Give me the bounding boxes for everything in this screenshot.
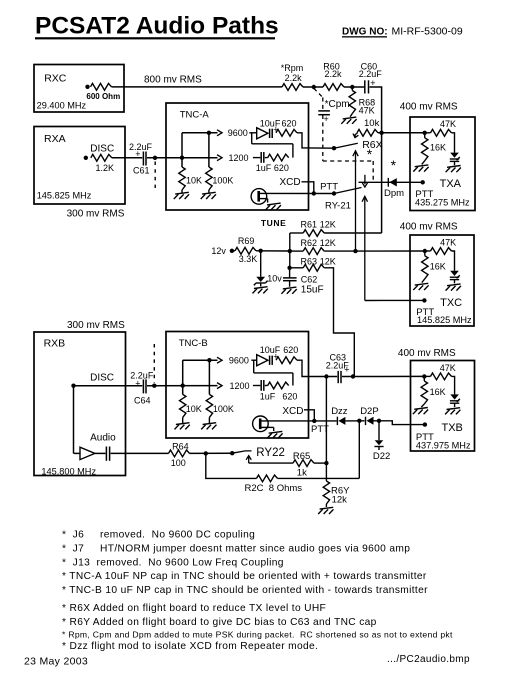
RXC labels — [37, 73, 121, 111]
resistor R6Y 12k — [323, 481, 329, 504]
resistor 620 TNC-B 1200 — [268, 382, 289, 389]
svg-text:9600: 9600 — [228, 128, 248, 138]
drawing number label — [342, 26, 463, 38]
svg-text:47K: 47K — [440, 238, 456, 248]
svg-text:100K: 100K — [212, 176, 233, 186]
svg-text:1uF: 1uF — [256, 163, 272, 173]
svg-text:9600: 9600 — [229, 356, 249, 366]
wire D2P to TXB PTT jog — [374, 421, 425, 425]
svg-text:620: 620 — [274, 163, 289, 173]
wire link down to 1200 chain B — [292, 373, 294, 386]
svg-text:12K: 12K — [320, 257, 336, 267]
svg-text:RY-21: RY-21 — [325, 201, 351, 212]
R68 labels — [359, 97, 376, 115]
R69 labels — [238, 236, 257, 264]
wire TNC-B vertical riser — [182, 360, 184, 394]
resistor R63 12K — [303, 264, 324, 271]
receiver box RXC — [34, 65, 124, 113]
svg-text:C64: C64 — [134, 396, 151, 406]
svg-text:XCD: XCD — [282, 406, 303, 417]
resistor R2C 8 Ohms — [257, 475, 278, 482]
wire 100K to ground — [208, 190, 210, 193]
svg-text:Audio: Audio — [90, 433, 116, 444]
RXB labels — [41, 320, 125, 477]
wire 10k to TXA input — [378, 132, 425, 134]
svg-text:23 May 2003: 23 May 2003 — [24, 656, 88, 668]
node TNC-A 1200 tap — [180, 156, 184, 160]
resistor 100K TNC-B — [206, 394, 212, 417]
wire R69 to bus — [256, 250, 290, 252]
R63 labels — [301, 257, 336, 267]
svg-text:2.2uF: 2.2uF — [129, 142, 153, 152]
node TNC-B 9600 tap — [207, 358, 211, 362]
wire 12v to R69 — [232, 250, 235, 252]
switch blade RY-21 — [334, 188, 362, 194]
wire 800mv bus — [112, 86, 283, 88]
wire R68 to ground — [350, 114, 352, 117]
wire R62 to TXC input — [324, 250, 425, 252]
svg-text:D22: D22 — [373, 451, 390, 462]
arrow 9600 input — [217, 130, 222, 136]
wire C63 bias vertical — [325, 377, 327, 481]
node RXA DISC — [84, 156, 88, 160]
svg-text:+: + — [344, 365, 349, 375]
svg-text:* J7 HT/NORM jumper doesn: * J7 HT/NORM jumper doesnt matter since … — [62, 543, 410, 554]
transmitter box TXB — [411, 361, 475, 452]
svg-text:TXA: TXA — [440, 178, 462, 190]
svg-text:145.825 MHz: 145.825 MHz — [37, 191, 92, 201]
ground 16K TXC — [413, 283, 428, 290]
node bus R62 — [288, 249, 292, 253]
svg-text:620: 620 — [282, 392, 297, 402]
R62 labels — [301, 238, 336, 248]
capacitor 1uF TNC-A — [261, 152, 264, 163]
svg-text:* Dzz flight mod to isolate XC: * Dzz flight mod to isolate XCD from Rep… — [62, 641, 318, 652]
node C63 right R63 join — [351, 374, 355, 378]
node Rpm/R60 junction — [312, 85, 316, 89]
wire 100K riser B — [208, 360, 210, 394]
resistor 16K TXB — [421, 381, 427, 404]
svg-text:* J13 removed. No 9600 Low: * J13 removed. No 9600 Low Freq Coupling — [62, 557, 284, 568]
svg-text:10K: 10K — [186, 176, 202, 186]
op-amp U-A 9600 amp — [257, 128, 268, 139]
wire 47K to varactor TXB — [452, 376, 455, 394]
svg-text:437.975 MHz: 437.975 MHz — [416, 441, 471, 451]
wire audio out to R64 — [111, 452, 169, 454]
arrow 1200 input B — [217, 383, 222, 389]
svg-text:TUNE: TUNE — [261, 218, 287, 228]
node TXB PTT — [423, 422, 427, 426]
resistor 10K TNC-B — [180, 394, 186, 417]
arrow R62 tune to R6X — [353, 151, 358, 251]
svg-text:400 mv RMS: 400 mv RMS — [400, 222, 458, 233]
svg-text:Dpm: Dpm — [384, 188, 404, 199]
node D22 tap — [377, 419, 381, 423]
wire 16K to ground — [422, 161, 425, 165]
svg-text:R63: R63 — [301, 257, 318, 267]
svg-text:2.2k: 2.2k — [325, 69, 343, 79]
svg-text:R65: R65 — [293, 451, 310, 462]
resistor 100K TNC-A — [206, 167, 212, 190]
wire C63 to TXB input — [342, 375, 424, 377]
svg-text:16K: 16K — [430, 262, 446, 272]
arrow RY22 coil — [246, 456, 251, 464]
wire 100K-B to ground — [208, 417, 210, 423]
Rpm labels — [281, 63, 304, 83]
diode Dzz — [337, 417, 345, 425]
resistor 16K TXA — [422, 138, 428, 161]
C62 bottom lead — [289, 281, 291, 287]
svg-text:* R6Y Added on flight board to: * R6Y Added on flight board to give DC b… — [62, 617, 377, 628]
svg-text:12K: 12K — [320, 238, 336, 248]
svg-text:* R6X Added on flight board to: * R6X Added on flight board to reduce TX… — [62, 603, 326, 614]
svg-text:R2C 8 Ohms: R2C 8 Ohms — [245, 483, 303, 494]
node TXA audio input — [423, 131, 427, 135]
svg-text:12v: 12v — [211, 246, 226, 256]
capacitor C61 2.2uF — [143, 152, 146, 166]
svg-text:* Rpm, Cpm and Dpm added to mu: * Rpm, Cpm and Dpm added to mute PSK dur… — [62, 630, 453, 640]
wire R2C to Dzz node drop — [278, 477, 360, 479]
wire TXB input to 47K — [424, 375, 430, 377]
svg-text:*: * — [391, 157, 397, 173]
svg-text:R64: R64 — [172, 442, 189, 452]
svg-text:600 Ohm: 600 Ohm — [86, 92, 120, 101]
title: PCSAT2 Audio Paths — [35, 13, 279, 40]
node zener tap — [259, 249, 263, 253]
op-amp U-B 9600 amp — [257, 355, 268, 366]
transistor Q-B PTT — [253, 416, 274, 432]
svg-text:RXB: RXB — [44, 338, 66, 350]
wire 16K TXC top — [424, 251, 426, 256]
wire RXB internal audio branch — [73, 386, 75, 454]
svg-text:800 mv RMS: 800 mv RMS — [144, 75, 202, 86]
node C60 bus tap — [379, 131, 383, 135]
svg-text:TXC: TXC — [440, 297, 462, 309]
svg-text:* TNC-B 10 uF NP cap in TNC sh: * TNC-B 10 uF NP cap in TNC should be or… — [62, 585, 428, 596]
svg-text:12K: 12K — [320, 220, 336, 230]
svg-text:* J6 removed. No 9600 DC: * J6 removed. No 9600 DC copuling — [62, 530, 255, 541]
svg-text:1.2K: 1.2K — [96, 163, 115, 173]
svg-text:R6X: R6X — [362, 139, 382, 151]
R64 labels — [171, 442, 189, 469]
svg-text:100: 100 — [171, 458, 186, 468]
receiver box RXB — [34, 332, 126, 476]
TNC-B box — [166, 332, 309, 439]
node TXA PTT — [421, 180, 425, 184]
svg-text:47K: 47K — [440, 363, 456, 373]
resistor R68 47K — [349, 91, 355, 114]
svg-text:16K: 16K — [430, 143, 446, 153]
svg-text:10uF: 10uF — [260, 345, 281, 355]
svg-text:400 mv RMS: 400 mv RMS — [398, 348, 456, 359]
wire 9600 to op-amp — [249, 132, 256, 134]
svg-text:RY22: RY22 — [256, 447, 285, 459]
C64 labels — [130, 371, 154, 406]
svg-text:R61: R61 — [301, 220, 318, 230]
resistor 47K TXA — [431, 129, 452, 136]
node XCD-B join — [312, 419, 316, 423]
resistor R64 100 — [169, 450, 190, 457]
svg-text:2.2k: 2.2k — [285, 73, 303, 83]
resistor 1.2K — [91, 154, 112, 161]
svg-text:RXC: RXC — [44, 73, 67, 85]
wire R60 to C60 — [344, 86, 364, 88]
wire C64 to TNC-B — [147, 385, 218, 387]
wire 10K-B to ground — [182, 417, 184, 423]
ground 10K TNC-B — [175, 423, 190, 430]
switch blade R6X — [334, 143, 358, 148]
svg-text:300 mv RMS: 300 mv RMS — [67, 320, 125, 331]
node TXC audio input — [423, 249, 427, 253]
switch blade RY22 — [232, 451, 251, 453]
svg-text:+: + — [135, 379, 140, 389]
resistor 620 TNC-A 1200 — [268, 154, 289, 161]
ground transistor TNC-B — [267, 431, 282, 438]
resistor R60 2.2k — [323, 84, 344, 91]
10uF and 620 labels — [260, 119, 297, 129]
svg-text:XCD: XCD — [280, 177, 301, 188]
capacitor C63 2.2uF — [338, 371, 341, 383]
node bus R63 — [287, 266, 291, 270]
resistor Rpm 2.2k — [282, 84, 303, 91]
R61 labels — [301, 220, 336, 230]
wire TXC PTT feed — [365, 299, 425, 301]
wire TNC-A 9600 input — [182, 132, 218, 134]
1uF and 620 labels — [256, 163, 289, 173]
node TNC-B 1200 tap — [181, 383, 185, 387]
resistor 47K TXC — [431, 248, 452, 255]
ground R6Y — [318, 507, 333, 514]
diode Dpm — [388, 178, 397, 187]
wire 16K TXB top — [423, 376, 425, 381]
ground 10K TNC-A — [174, 192, 189, 199]
ground 16K TXA — [413, 165, 428, 172]
capacitor C62 15uF — [283, 278, 297, 281]
wire C60 out elbow down — [370, 87, 382, 233]
TNC-A box — [166, 103, 309, 210]
wire 47K to varactor — [452, 133, 455, 153]
ground 100K TNC-A — [201, 192, 216, 199]
svg-text:3.3K: 3.3K — [239, 254, 258, 264]
svg-text:* TNC-A 10uF NP cap in TNC sho: * TNC-A 10uF NP cap in TNC should be ori… — [62, 571, 427, 582]
varactor diode TXB — [450, 394, 460, 407]
wire 1200 to 1uF — [253, 157, 260, 159]
resistor R62 12K — [303, 248, 324, 255]
svg-text:+: + — [135, 149, 140, 159]
TXA labels — [400, 102, 470, 208]
wire bus to R61 — [290, 232, 303, 234]
svg-text:*: * — [367, 146, 373, 162]
svg-text:DISC: DISC — [90, 144, 114, 155]
node C63 left — [324, 374, 328, 378]
R65 labels — [293, 451, 310, 479]
ground varactor TXC — [446, 284, 461, 291]
ground transistor TNC-A — [266, 203, 281, 210]
node 12v feed — [230, 249, 234, 253]
node Dzz/D2P junction — [357, 419, 361, 423]
svg-text:400 mv RMS: 400 mv RMS — [400, 102, 458, 113]
R60 labels — [323, 62, 342, 80]
wire Dzz to D2P — [345, 420, 364, 422]
wire link 9600/1200 — [252, 143, 293, 145]
resistor 620 TNC-B 9600 — [276, 357, 297, 364]
ground varactor TXA — [446, 166, 461, 173]
switch arrow at Dpm line — [362, 175, 367, 187]
capacitor C62 15uF lead — [289, 268, 291, 278]
footnotes — [62, 530, 453, 652]
svg-text:10K: 10K — [186, 404, 202, 414]
dashed rail horizontal — [323, 160, 373, 162]
wire R61 to C60 bus — [324, 232, 381, 234]
wire bus to R63 — [290, 267, 304, 269]
receiver box RXA — [34, 127, 125, 205]
wire Rpm to R60 — [303, 86, 323, 88]
resistor R65 1k — [293, 460, 314, 467]
node TXB audio input — [422, 374, 426, 378]
wire C61 to TNC-A — [147, 157, 218, 159]
svg-text:.../PC2audio.bmp: .../PC2audio.bmp — [387, 654, 470, 665]
C62 labels — [301, 275, 324, 296]
RXA labels — [37, 133, 125, 220]
svg-text:*Cpm: *Cpm — [325, 99, 350, 110]
wire RY22 coil to R65 — [249, 462, 293, 464]
capacitor C60 2.2uF — [365, 80, 369, 93]
wire Dzz node down to R2C — [358, 421, 360, 479]
diode D22 — [374, 440, 383, 450]
C61 labels — [129, 142, 153, 176]
svg-text:47K: 47K — [440, 119, 456, 129]
svg-text:47K: 47K — [359, 106, 375, 116]
wire 100K riser — [208, 133, 210, 167]
wire TXC input to 47K — [425, 250, 431, 252]
svg-text:Dzz: Dzz — [331, 406, 348, 417]
wire TNC-A vertical riser to 9600 — [181, 133, 183, 167]
C63 labels — [326, 353, 350, 375]
wire TNC-B out to C63 — [309, 376, 338, 378]
resistor 10k PSK mix — [357, 129, 378, 136]
svg-text:C62: C62 — [301, 275, 318, 285]
dashed Cpm top lead — [322, 98, 324, 111]
svg-text:PCSAT2 Audio Paths: PCSAT2 Audio Paths — [35, 13, 279, 40]
node C61 out — [153, 156, 157, 160]
capacitor 10uF TNC-B — [270, 356, 273, 365]
wire 10K to ground — [181, 190, 183, 193]
jumper J13 dashed stub — [154, 162, 156, 189]
svg-text:R62: R62 — [301, 238, 318, 248]
ground C62 — [281, 287, 296, 294]
svg-text:620: 620 — [283, 345, 298, 355]
node TNC-A 9600 tap — [207, 131, 211, 135]
svg-text:145.825 MHz: 145.825 MHz — [417, 315, 472, 325]
wire 16K top — [424, 133, 426, 138]
wire RXB DISC to C64 — [74, 385, 143, 387]
wire TNC-A 620 out to blade — [309, 147, 335, 149]
wire 47K to varactor TXC — [452, 251, 455, 271]
wire R6Y to ground — [325, 504, 327, 507]
wire 9600-B to op-amp — [251, 359, 256, 361]
svg-text:620: 620 — [282, 119, 297, 129]
wire R64 to RY22 switch — [190, 452, 233, 454]
wire 620 out elbow — [297, 133, 309, 148]
svg-text:DISC: DISC — [90, 373, 114, 384]
R6Y labels — [331, 486, 350, 506]
node RXB DISC — [71, 384, 75, 388]
wire op-amp-B input stub down — [253, 360, 255, 373]
wire 16K TXC to ground — [422, 279, 425, 283]
wire link 9600/1200 B — [254, 372, 293, 374]
wire RXA to C61 — [112, 157, 143, 159]
zener diode 10v — [254, 277, 268, 287]
wire bus to R62 — [290, 250, 303, 252]
svg-text:15uF: 15uF — [301, 285, 324, 296]
TXC labels — [400, 222, 472, 326]
resistor R69 3.3K — [235, 247, 256, 254]
svg-text:12k: 12k — [332, 495, 348, 506]
wire amp to cap — [95, 452, 106, 454]
wire R65 to C63 bias node — [314, 462, 326, 464]
audio amp triangle — [80, 447, 95, 459]
wire TXA input to 47K — [425, 132, 431, 134]
1uF and 620 labels B — [260, 392, 298, 402]
jumper J6 dashed stub — [153, 344, 155, 383]
wire zener lead — [260, 251, 262, 277]
varactor diode TXA — [450, 153, 460, 166]
svg-text:TNC-B: TNC-B — [179, 338, 208, 349]
wire 1uF to 620 — [265, 157, 268, 159]
wire link down to 1200 chain — [292, 144, 294, 158]
resistor value labels — [186, 176, 233, 186]
capacitor audio coupling — [106, 447, 109, 461]
svg-text:29.400 MHz: 29.400 MHz — [37, 101, 87, 111]
wire R63 elbow to C63 — [324, 268, 354, 377]
arrow 1200 input — [217, 155, 222, 161]
svg-text:MI-RF-5300-09: MI-RF-5300-09 — [392, 26, 463, 38]
svg-text:1200: 1200 — [229, 153, 249, 163]
svg-text:PTT: PTT — [320, 182, 338, 193]
svg-text:435.275 MHz: 435.275 MHz — [415, 198, 470, 208]
svg-text:1200: 1200 — [230, 381, 250, 391]
C60 labels — [359, 62, 383, 89]
resistor 10K TNC-A — [179, 167, 185, 190]
wire R68 top — [351, 87, 353, 91]
node C64 out — [152, 384, 156, 388]
transmitter box TXA — [410, 117, 475, 211]
node RXC output — [85, 85, 89, 89]
wire 1200-B to 1uF — [253, 385, 260, 387]
ground varactor TXB — [445, 408, 460, 415]
node R62 arrow tap — [353, 249, 357, 253]
wire 620-B out elbow — [297, 360, 309, 376]
capacitor C64 2.2uF — [143, 379, 146, 393]
Cpm labels — [324, 99, 350, 124]
svg-text:10uF: 10uF — [260, 119, 281, 129]
10uF and 620 labels B — [260, 345, 299, 355]
svg-text:+: + — [324, 114, 329, 124]
svg-text:TXB: TXB — [442, 422, 463, 434]
arrow 9600 input B — [217, 357, 222, 363]
capacitor 1uF TNC-B — [261, 380, 264, 391]
wire TNC-B PTT line — [261, 420, 337, 422]
node audio R2C tap — [204, 451, 208, 455]
svg-text:16K: 16K — [430, 387, 446, 397]
TXB labels — [398, 348, 471, 451]
dashed rail down to PTT line — [372, 161, 374, 181]
wire 16K TXB to ground — [421, 404, 424, 407]
wire D22 lead — [378, 421, 380, 440]
node XCD join PTT — [312, 191, 316, 195]
dashed Cpm bottom lead — [322, 115, 324, 161]
ground R68 — [341, 117, 356, 124]
